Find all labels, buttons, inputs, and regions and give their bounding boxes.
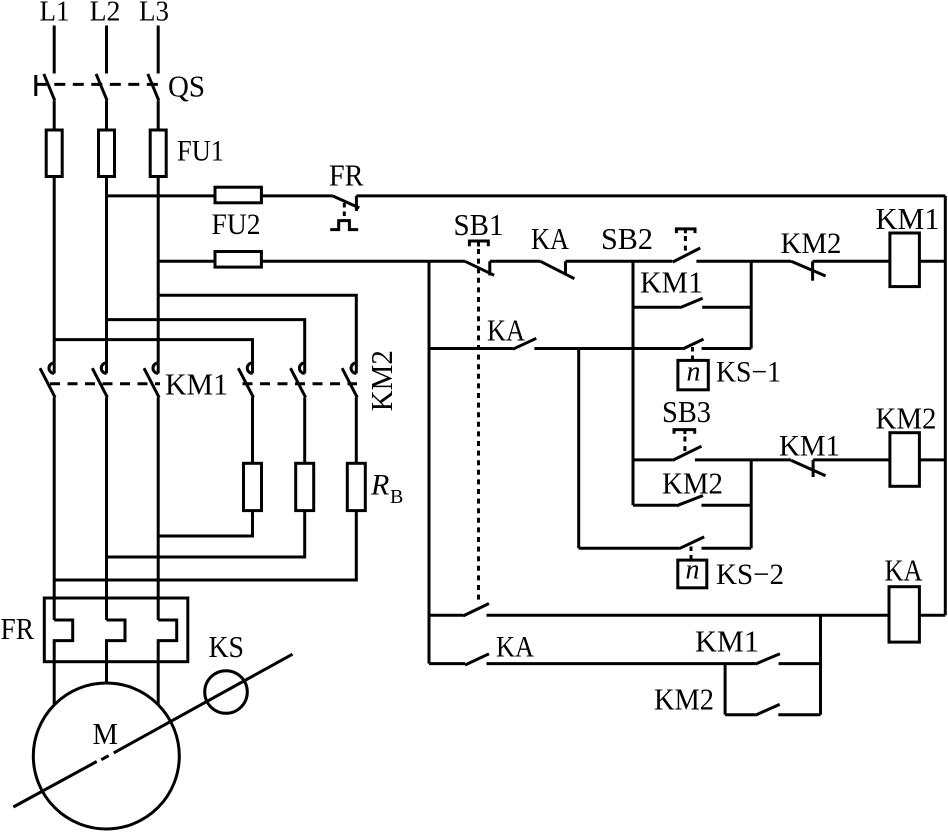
contactor KM2 main contact pole 5: [291, 363, 306, 398]
wire SB2 branch vertical: [632, 261, 635, 505]
wire bottom row right: [779, 662, 821, 665]
svg-text:KM2: KM2: [364, 350, 399, 411]
svg-text:B: B: [390, 486, 403, 508]
resistor RB element 2: [296, 463, 314, 510]
speed switch KS-2 linkage dashed: [690, 547, 693, 561]
speed switch KS-2 box: [678, 560, 707, 588]
contactor KM1 NO holding contact blade: [680, 298, 703, 308]
wire KM2 pole 5 to resistor: [303, 397, 306, 463]
svg-text:KS−1: KS−1: [716, 356, 781, 389]
fuse FU2 upper: [215, 187, 261, 203]
svg-text:L2: L2: [90, 0, 121, 28]
svg-text:FU1: FU1: [177, 134, 224, 167]
contactor KM2 NC interlock blade: [791, 261, 826, 276]
wire right return vertical: [944, 196, 947, 615]
contactor KM2 NO holding contact left wire: [633, 504, 677, 507]
relay KA NC contact hook: [564, 261, 567, 274]
wire row KA left: [429, 347, 513, 350]
contactor KM2 main contact pole 4: [238, 363, 253, 398]
resistor RB element 3: [347, 463, 365, 510]
svg-text:QS: QS: [168, 69, 205, 104]
contactor KM1 main contact pole 3: [144, 363, 159, 398]
svg-text:KM1: KM1: [876, 201, 940, 236]
pushbutton SB1 head: [469, 241, 488, 247]
wire row KA coil left: [429, 614, 463, 617]
speed switch KS-2 right wire: [702, 547, 752, 550]
contactor KM1 main contact pole 2: [92, 363, 107, 398]
svg-text:KA: KA: [885, 553, 924, 588]
svg-text:FU2: FU2: [212, 208, 261, 241]
contactor KM2 NC interlock hook: [811, 261, 814, 280]
svg-text:KM2: KM2: [662, 465, 723, 500]
relay KA NO contact blade: [513, 338, 536, 349]
contactor KM1 NC interlock hook: [812, 460, 815, 477]
relay KA NO bottom contact blade: [465, 654, 489, 665]
svg-text:FR: FR: [1, 611, 35, 646]
svg-text:FR: FR: [329, 157, 364, 192]
svg-text:KM2: KM2: [654, 681, 714, 716]
svg-text:KA: KA: [487, 313, 526, 348]
wire rail top FR to right edge: [356, 194, 945, 197]
wire motor lead U: [53, 662, 56, 704]
wire L2 to KM2 pole 5 crossover top: [107, 320, 305, 374]
wire L1 to KM2 pole 4 crossover top: [54, 340, 252, 374]
fuse FU2 lower: [215, 252, 261, 268]
wire rail top fuse to FR: [261, 194, 332, 197]
svg-text:KM1: KM1: [640, 265, 703, 300]
svg-text:SB1: SB1: [454, 207, 504, 242]
svg-text:KM2: KM2: [876, 401, 937, 436]
motor shaft line lower: [13, 762, 96, 808]
wire KM2 pole 6 to resistor: [355, 397, 358, 463]
wire row KA coil middle: [487, 614, 890, 617]
wire L2 QS to FU1: [105, 101, 108, 130]
wire L2 incoming: [105, 26, 108, 74]
wire KM2 NC to KM1 coil: [813, 260, 890, 263]
svg-text:R: R: [370, 469, 389, 502]
wire KM2 holding branch right vertical lower: [750, 460, 753, 548]
wire L3 to KM2 pole 6 crossover top: [158, 295, 356, 373]
wire row SB3 to KM1 NC: [695, 458, 791, 461]
speed switch KS-1 right wire: [702, 347, 752, 350]
wire L1 incoming: [53, 26, 56, 74]
wire KM1 holding branch right vertical upper: [750, 261, 753, 348]
svg-text:KM1: KM1: [695, 623, 759, 658]
svg-text:n: n: [686, 555, 700, 586]
disconnect switch QS pole 2 blade: [96, 74, 107, 101]
contactor KM1 main contact pole 1: [40, 363, 55, 398]
svg-text:n: n: [687, 357, 701, 388]
svg-text:L1: L1: [40, 0, 70, 28]
wire L3 FU1 to KM1 contact: [157, 177, 160, 374]
fuse FU1 pole 2: [99, 130, 115, 177]
disconnect switch QS pole 1 blade: [44, 74, 55, 101]
pushbutton SB2 linkage dashed: [684, 236, 687, 257]
wire L1 QS to FU1: [53, 101, 56, 130]
thermal relay FR heater element 2: [107, 620, 126, 662]
svg-text:KM1: KM1: [165, 367, 228, 402]
wire rail bottom fuse to SB1: [261, 260, 465, 263]
thermal relay FR heater element 1: [54, 620, 72, 662]
coil KA: [889, 587, 919, 642]
wire pole 4 resistor to crossover: [158, 511, 252, 536]
speed switch KS-2 NO contact blade: [679, 537, 704, 549]
speed switch KS-1 box: [678, 360, 708, 389]
svg-text:L3: L3: [139, 0, 169, 28]
wire KM2 bottom branch left vertical: [724, 664, 727, 715]
disconnect switch QS pole 3 blade: [148, 74, 159, 101]
speed switch KS-1 linkage dashed: [691, 347, 694, 360]
svg-text:KS−2: KS−2: [716, 558, 784, 591]
pushbutton SB3 head: [674, 430, 695, 434]
contactor KM1 NC interlock blade: [791, 460, 825, 475]
pushbutton SB1 linkage dashed: [477, 249, 480, 602]
wire motor lead V: [105, 662, 108, 684]
thermal relay FR heater element 3: [158, 620, 177, 662]
wire KM1 NC to KM2 coil: [813, 458, 890, 461]
contactor KM2 NO holding contact blade: [677, 496, 704, 506]
svg-text:SB2: SB2: [601, 221, 653, 256]
wire L3 incoming: [157, 26, 160, 74]
wire KS-2 branch vertical: [577, 349, 580, 549]
wire KM2 bottom row left: [725, 713, 755, 716]
resistor RB label: [370, 469, 403, 509]
svg-text:KM1: KM1: [779, 429, 840, 462]
contactor KM2 NO bottom contact blade: [755, 704, 779, 715]
motor shaft line upper: [114, 654, 293, 753]
wire L2 FU1 to KM1 contact: [105, 177, 108, 374]
contactor main contacts linkage dashed left: [50, 382, 160, 385]
contactor KM2 NO holding contact right wire: [702, 504, 752, 507]
disconnect switch QS handle bar: [34, 75, 37, 96]
pushbutton SB1 NO contact blade: [463, 604, 489, 617]
pushbutton SB2 head: [676, 229, 695, 233]
wire rail bottom KA to SB2: [566, 260, 673, 263]
wire L3 QS to FU1: [157, 101, 160, 130]
wire KM2 pole 4 to resistor: [251, 397, 254, 463]
wire bottom row middle: [487, 662, 756, 665]
disconnect switch QS linkage dashed: [36, 83, 161, 86]
svg-text:KS: KS: [209, 629, 245, 664]
motor shaft center dash: [101, 756, 108, 760]
relay KA NC contact blade: [540, 261, 574, 278]
wire row KA middle: [534, 347, 682, 350]
contactor KM1 NO holding contact right wire: [702, 306, 751, 309]
wire KM2 coil to right vertical: [919, 458, 945, 461]
wire L2 below contact to FR box: [105, 397, 108, 620]
contactor KM1 NO holding contact left wire: [633, 306, 680, 309]
thermal relay FR contact linkage dashed: [343, 203, 346, 220]
wire bottom branch right vertical: [819, 615, 822, 714]
speed sensor KS circle: [205, 671, 248, 714]
wire KA coil to right vertical: [919, 614, 945, 617]
wire control rail top from L2: [107, 194, 216, 197]
wire KM1 coil to right vertical: [919, 260, 945, 263]
resistor RB element 1: [244, 463, 262, 510]
svg-text:KA: KA: [531, 221, 570, 256]
wire KM2 bottom row right: [778, 713, 820, 716]
wire bottom row left: [429, 662, 465, 665]
svg-text:SB3: SB3: [662, 394, 711, 429]
contactor KM1 NO bottom contact blade: [755, 654, 780, 664]
wire control left branch vertical: [428, 261, 431, 663]
fuse FU1 pole 1: [46, 130, 62, 177]
wire motor lead W: [157, 662, 160, 705]
pushbutton SB1 NC contact hook: [488, 261, 491, 275]
pushbutton SB3 NO contact blade: [673, 446, 702, 460]
wire pole 5 resistor to crossover: [107, 511, 305, 557]
svg-text:KM2: KM2: [781, 227, 842, 260]
coil KM2: [890, 433, 920, 487]
wire rail bottom SB1 to KA: [490, 260, 541, 263]
svg-text:KA: KA: [496, 630, 534, 663]
svg-text:M: M: [93, 716, 119, 751]
wire rail bottom SB2 to KM2: [696, 260, 791, 263]
contactor KM2 main contact pole 6: [342, 363, 357, 398]
coil KM1: [890, 233, 920, 287]
thermal relay FR reset symbol: [330, 221, 358, 230]
fuse FU1 pole 3: [150, 130, 166, 177]
motor M circle: [33, 683, 179, 829]
wire pole 6 resistor to crossover: [54, 511, 356, 580]
wire control rail bottom from L3: [158, 260, 215, 263]
pushbutton SB1 NC contact blade: [465, 261, 494, 275]
thermal relay FR NC contact blade: [333, 196, 360, 208]
wire row SB3 left: [633, 458, 673, 461]
thermal relay FR heater box: [44, 598, 188, 662]
contactor main contacts linkage dashed right: [243, 382, 358, 385]
wire L3 below contact to FR box: [157, 397, 160, 620]
wire L1 below contact to FR box: [53, 397, 56, 620]
wire L1 FU1 to KM1 contact: [53, 177, 56, 374]
speed switch KS-1 NO contact blade: [683, 339, 704, 349]
pushbutton SB3 linkage dashed: [683, 437, 686, 456]
pushbutton SB2 NO contact blade: [673, 248, 700, 262]
wire row KS-2 left: [579, 547, 679, 550]
thermal relay FR NC contact hook: [355, 196, 358, 211]
